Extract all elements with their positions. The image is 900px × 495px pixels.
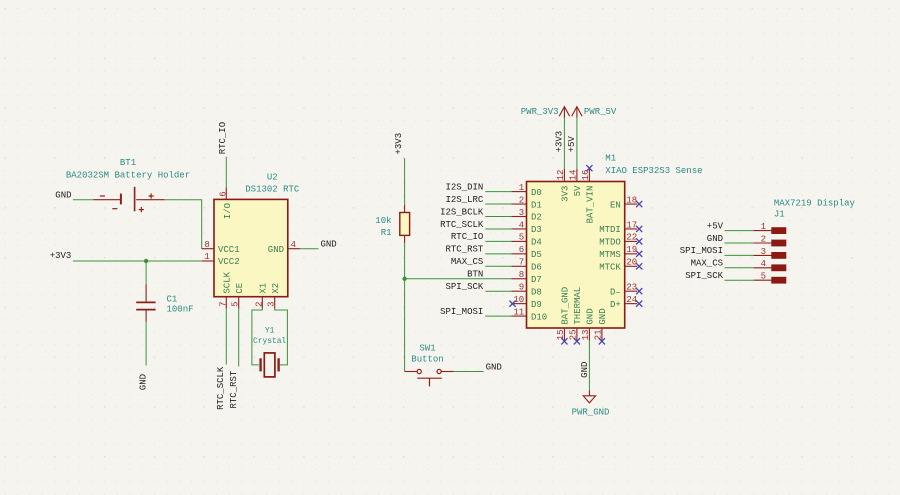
svg-text:GND: GND bbox=[707, 234, 723, 244]
M1 pin 23 D– (right) bbox=[610, 283, 637, 298]
svg-text:12: 12 bbox=[556, 170, 566, 181]
U2 pin 3 X2 (bottom) bbox=[267, 283, 281, 309]
J1 pin 3 (SPI_MOSI) bbox=[754, 247, 786, 258]
wire MAX_CS to M1 pin 7 bbox=[485, 265, 511, 267]
svg-text:D2: D2 bbox=[531, 213, 542, 223]
no-connect X on M1 pin 21 bbox=[599, 338, 605, 344]
no-connect X on M1 pin 22 bbox=[636, 238, 642, 244]
crystal Y1 symbol bbox=[261, 353, 279, 377]
M1 pin 14 5V (top) bbox=[569, 169, 584, 196]
J1 pin 2 (GND) bbox=[754, 234, 786, 246]
svg-text:2: 2 bbox=[254, 301, 264, 306]
svg-text:GND: GND bbox=[321, 240, 337, 250]
wire U2 pin 4 to GND label bbox=[300, 248, 318, 250]
wire M1 5V pin to PWR_5V bbox=[576, 118, 578, 170]
svg-text:24: 24 bbox=[626, 295, 637, 305]
svg-text:MTCK: MTCK bbox=[599, 263, 621, 273]
svg-text:4: 4 bbox=[761, 259, 766, 269]
svg-text:MAX7219 Display: MAX7219 Display bbox=[774, 199, 856, 209]
svg-text:Y1: Y1 bbox=[265, 327, 275, 336]
M1 pin 2 D1 (left) bbox=[511, 195, 542, 210]
svg-text:14: 14 bbox=[569, 170, 579, 181]
svg-text:D9: D9 bbox=[531, 300, 542, 310]
wire +5V to J1 pin 1 bbox=[725, 230, 754, 232]
svg-text:GND: GND bbox=[580, 362, 590, 378]
wire GND label to battery pin 2 bbox=[73, 199, 93, 201]
switch SW1 symbol bbox=[405, 369, 454, 386]
svg-text:RTC_SCLK: RTC_SCLK bbox=[216, 366, 226, 410]
wire C1 to GND label bbox=[145, 322, 147, 366]
M1 pin 22 MTDO (right) bbox=[599, 233, 637, 248]
svg-text:I2S_LRC: I2S_LRC bbox=[445, 195, 483, 205]
svg-text:+5V: +5V bbox=[707, 221, 724, 231]
M1 pin 17 MTDI (right) bbox=[599, 220, 637, 235]
svg-text:BTN: BTN bbox=[467, 270, 483, 280]
wire R1 to junction to SW1 bbox=[404, 243, 406, 371]
no-connect X on M1 pin 17 bbox=[636, 226, 642, 232]
svg-text:17: 17 bbox=[626, 220, 637, 230]
svg-text:D–: D– bbox=[610, 287, 621, 297]
svg-text:PWR_5V: PWR_5V bbox=[584, 107, 617, 117]
module M1 body bbox=[527, 182, 625, 329]
wire SPI_SCK to M1 pin 9 bbox=[485, 290, 511, 292]
no-connect X on M1 pin 10 bbox=[509, 301, 515, 307]
svg-text:+3V3: +3V3 bbox=[394, 133, 404, 155]
svg-text:7: 7 bbox=[519, 258, 524, 268]
svg-text:BAT_VIN: BAT_VIN bbox=[586, 186, 596, 224]
M1 pin 7 D6 (left) bbox=[511, 258, 542, 273]
svg-text:SW1: SW1 bbox=[419, 344, 435, 354]
svg-text:RTC_RST: RTC_RST bbox=[445, 245, 483, 255]
capacitor C1 symbol bbox=[136, 284, 155, 321]
svg-text:U2: U2 bbox=[267, 172, 278, 182]
junction BTN node bbox=[402, 277, 406, 281]
wire I2S_LRC to M1 pin 2 bbox=[485, 203, 511, 205]
wire U2 SCLK to RTC_SCLK label bbox=[225, 309, 227, 365]
U2 pin 4 GND (right) bbox=[268, 240, 300, 255]
wire U2 X1 to crystal left bbox=[252, 309, 262, 365]
svg-text:8: 8 bbox=[519, 270, 524, 280]
U2 pin 1 VCC2 (left) bbox=[202, 252, 240, 267]
svg-text:20: 20 bbox=[626, 258, 637, 268]
svg-text:1: 1 bbox=[761, 222, 766, 232]
svg-text:R1: R1 bbox=[381, 228, 392, 238]
svg-text:VCC1: VCC1 bbox=[218, 245, 240, 255]
M1 pin 24 D+ (right) bbox=[610, 295, 637, 310]
svg-text:RTC_RST: RTC_RST bbox=[229, 370, 239, 408]
svg-text:VCC2: VCC2 bbox=[218, 257, 240, 267]
svg-text:SPI_SCK: SPI_SCK bbox=[445, 282, 483, 292]
no-connect X on M1 pin 25 bbox=[574, 338, 580, 344]
svg-text:2: 2 bbox=[519, 195, 524, 205]
wire battery positive to U2 VCC1 bbox=[165, 200, 202, 249]
svg-text:D+: D+ bbox=[610, 300, 621, 310]
J1 pin 4 (MAX_CS) bbox=[754, 259, 786, 270]
svg-text:EN: EN bbox=[610, 200, 621, 210]
M1 pin 21 GND (bottom) bbox=[594, 308, 609, 340]
svg-text:D7: D7 bbox=[531, 275, 542, 285]
svg-text:+3V3: +3V3 bbox=[50, 251, 72, 261]
svg-text:X1: X1 bbox=[259, 283, 269, 294]
wire RTC_SCLK to M1 pin 4 bbox=[485, 228, 511, 230]
svg-text:SPI_MOSI: SPI_MOSI bbox=[440, 307, 483, 317]
svg-text:MAX_CS: MAX_CS bbox=[691, 259, 723, 269]
svg-text:3: 3 bbox=[519, 208, 524, 218]
svg-text:10: 10 bbox=[513, 295, 524, 305]
wire SW1 to GND label bbox=[454, 371, 484, 373]
M1 pin 12 3V3 (top) bbox=[556, 169, 571, 202]
wire +3V3 to R1 bbox=[404, 158, 406, 205]
power symbol PWR_GND bbox=[572, 390, 610, 417]
M1 pin 9 D8 (left) bbox=[511, 283, 542, 298]
svg-text:D8: D8 bbox=[531, 287, 542, 297]
wire GND to J1 pin 2 bbox=[725, 242, 754, 244]
svg-text:D4: D4 bbox=[531, 238, 542, 248]
J1 pin 5 (SPI_SCK) bbox=[754, 272, 786, 283]
no-connect X on M1 pin 19 bbox=[636, 251, 642, 257]
wire +3V3 to U2 VCC2 bbox=[73, 260, 202, 262]
svg-text:23: 23 bbox=[626, 283, 637, 293]
M1 pin 8 D7 (left) bbox=[511, 270, 542, 285]
svg-text:6: 6 bbox=[218, 191, 228, 196]
svg-text:MTDO: MTDO bbox=[599, 238, 621, 248]
svg-text:PWR_3V3: PWR_3V3 bbox=[521, 107, 559, 117]
wire MAX_CS to J1 pin 4 bbox=[725, 267, 754, 269]
M1 pin 15 BAT_GND (bottom) bbox=[556, 287, 571, 341]
svg-text:D3: D3 bbox=[531, 225, 542, 235]
M1 pin 19 MTMS (right) bbox=[599, 245, 637, 260]
svg-text:X2: X2 bbox=[271, 283, 281, 294]
svg-text:GND: GND bbox=[486, 362, 502, 372]
svg-text:I/O: I/O bbox=[223, 203, 233, 219]
svg-text:100nF: 100nF bbox=[167, 304, 194, 314]
svg-text:Crystal: Crystal bbox=[253, 337, 286, 346]
power symbol PWR_5V bbox=[572, 107, 617, 118]
svg-text:PWR_GND: PWR_GND bbox=[572, 408, 610, 418]
wire BTN node to module pin 8 bbox=[405, 278, 512, 280]
svg-text:+5V: +5V bbox=[567, 136, 577, 153]
no-connect X on M1 pin 18 bbox=[636, 201, 642, 207]
M1 pin 6 D5 (left) bbox=[511, 245, 542, 260]
M1 pin 18 EN (right) bbox=[610, 195, 637, 210]
svg-text:19: 19 bbox=[626, 245, 637, 255]
svg-text:4: 4 bbox=[291, 240, 296, 250]
svg-text:GND: GND bbox=[586, 308, 596, 324]
M1 pin 20 MTCK (right) bbox=[599, 258, 637, 273]
svg-text:MAX_CS: MAX_CS bbox=[451, 257, 483, 267]
svg-text:SPI_SCK: SPI_SCK bbox=[685, 271, 723, 281]
svg-text:1: 1 bbox=[519, 183, 524, 193]
junction +3V3/C1 bbox=[144, 259, 148, 263]
svg-text:5: 5 bbox=[761, 272, 766, 282]
svg-text:22: 22 bbox=[626, 233, 637, 243]
wire U2 X2 to crystal right bbox=[275, 309, 288, 365]
svg-text:10k: 10k bbox=[375, 216, 391, 226]
wire U2 CE to RTC_RST label bbox=[238, 309, 240, 367]
svg-text:18: 18 bbox=[626, 195, 637, 205]
no-connect X on M1 pin 15 bbox=[561, 338, 567, 344]
svg-text:1: 1 bbox=[204, 252, 209, 262]
svg-text:D6: D6 bbox=[531, 263, 542, 273]
svg-text:XIAO ESP32S3 Sense: XIAO ESP32S3 Sense bbox=[605, 166, 702, 176]
M1 pin 10 D9 (left) bbox=[511, 295, 542, 310]
svg-text:BAT_GND: BAT_GND bbox=[561, 287, 571, 325]
svg-text:16: 16 bbox=[581, 170, 591, 181]
svg-text:4: 4 bbox=[519, 220, 524, 230]
wire RTC_IO to M1 pin 5 bbox=[485, 240, 511, 242]
battery BT1 symbol bbox=[93, 187, 164, 212]
svg-text:GND: GND bbox=[139, 374, 149, 390]
U2 pin 8 VCC1 (left) bbox=[202, 240, 240, 255]
no-connect X on M1 pin 16 bbox=[586, 165, 592, 171]
M1 pin 25 THERMAL (bottom) bbox=[569, 287, 584, 341]
J1 pin 1 (+5V) bbox=[754, 222, 786, 234]
M1 pin 3 D2 (left) bbox=[511, 208, 542, 223]
M1 pin 13 GND (bottom) bbox=[581, 308, 596, 340]
svg-text:J1: J1 bbox=[774, 209, 785, 219]
svg-text:D5: D5 bbox=[531, 250, 542, 260]
svg-text:RTC_IO: RTC_IO bbox=[451, 232, 483, 242]
svg-text:RTC_SCLK: RTC_SCLK bbox=[440, 220, 484, 230]
svg-text:SCLK: SCLK bbox=[223, 271, 233, 293]
no-connect X on M1 pin 23 bbox=[636, 288, 642, 294]
svg-text:SPI_MOSI: SPI_MOSI bbox=[680, 246, 723, 256]
wire SPI_MOSI to M1 pin 11 bbox=[485, 315, 511, 317]
svg-text:5V: 5V bbox=[573, 185, 583, 196]
svg-text:MTMS: MTMS bbox=[599, 250, 621, 260]
wire RTC_IO to U2 pin 6 bbox=[225, 157, 227, 188]
resistor R1 symbol bbox=[400, 205, 410, 243]
svg-text:GND: GND bbox=[55, 191, 71, 201]
svg-text:THERMAL: THERMAL bbox=[573, 287, 583, 325]
svg-text:13: 13 bbox=[581, 329, 591, 340]
svg-text:D10: D10 bbox=[531, 312, 547, 322]
svg-text:I2S_DIN: I2S_DIN bbox=[445, 182, 483, 192]
wire SPI_MOSI to J1 pin 3 bbox=[725, 254, 754, 256]
svg-text:+3V3: +3V3 bbox=[554, 131, 564, 153]
svg-text:BT1: BT1 bbox=[120, 158, 136, 168]
svg-text:2: 2 bbox=[761, 234, 766, 244]
wire I2S_BCLK to M1 pin 3 bbox=[485, 216, 511, 218]
svg-text:M1: M1 bbox=[605, 154, 616, 164]
wire M1 GND pin 13 to PWR_GND bbox=[588, 341, 590, 391]
no-connect X on M1 pin 24 bbox=[636, 301, 642, 307]
wire M1 3V3 pin to PWR_3V3 bbox=[563, 118, 565, 170]
svg-text:MTDI: MTDI bbox=[599, 225, 621, 235]
wire I2S_DIN to M1 pin 1 bbox=[485, 191, 511, 193]
svg-text:D1: D1 bbox=[531, 200, 542, 210]
wire RTC_RST to M1 pin 6 bbox=[485, 253, 511, 255]
U2 pin 7 SCLK (bottom) bbox=[218, 271, 232, 308]
svg-text:5: 5 bbox=[231, 301, 241, 306]
wire SPI_SCK to J1 pin 5 bbox=[725, 279, 754, 281]
U2 pin 5 CE (bottom) bbox=[231, 283, 245, 309]
svg-text:C1: C1 bbox=[167, 295, 178, 305]
svg-text:3: 3 bbox=[761, 247, 766, 257]
U2 pin 2 X1 (bottom) bbox=[254, 283, 268, 309]
wire junction to C1 bbox=[145, 261, 147, 284]
no-connect X on M1 pin 20 bbox=[636, 263, 642, 269]
svg-text:GND: GND bbox=[268, 245, 284, 255]
M1 pin 16 BAT_VIN (top) bbox=[581, 169, 596, 223]
M1 pin 1 D0 (left) bbox=[511, 183, 542, 198]
svg-text:8: 8 bbox=[204, 240, 209, 250]
svg-text:CE: CE bbox=[235, 283, 245, 294]
M1 pin 11 D10 (left) bbox=[511, 307, 547, 322]
M1 pin 5 D4 (left) bbox=[511, 233, 542, 248]
svg-text:DS1302 RTC: DS1302 RTC bbox=[245, 184, 300, 194]
svg-text:11: 11 bbox=[513, 307, 524, 317]
svg-text:D0: D0 bbox=[531, 188, 542, 198]
svg-text:5: 5 bbox=[519, 233, 524, 243]
power symbol PWR_3V3 bbox=[521, 107, 570, 118]
U2 pin 6 I/O (top) bbox=[218, 188, 233, 220]
svg-text:3: 3 bbox=[267, 301, 277, 306]
svg-text:GND: GND bbox=[598, 308, 608, 324]
svg-text:RTC_IO: RTC_IO bbox=[218, 122, 228, 154]
svg-text:9: 9 bbox=[519, 283, 524, 293]
svg-text:7: 7 bbox=[218, 301, 228, 306]
svg-text:3V3: 3V3 bbox=[561, 186, 571, 202]
svg-text:6: 6 bbox=[519, 245, 524, 255]
M1 pin 4 D3 (left) bbox=[511, 220, 542, 235]
IC U2 body bbox=[214, 199, 288, 296]
svg-text:Button: Button bbox=[411, 354, 443, 364]
svg-text:BA2032SM Battery Holder: BA2032SM Battery Holder bbox=[66, 171, 190, 181]
svg-text:I2S_BCLK: I2S_BCLK bbox=[440, 207, 484, 217]
